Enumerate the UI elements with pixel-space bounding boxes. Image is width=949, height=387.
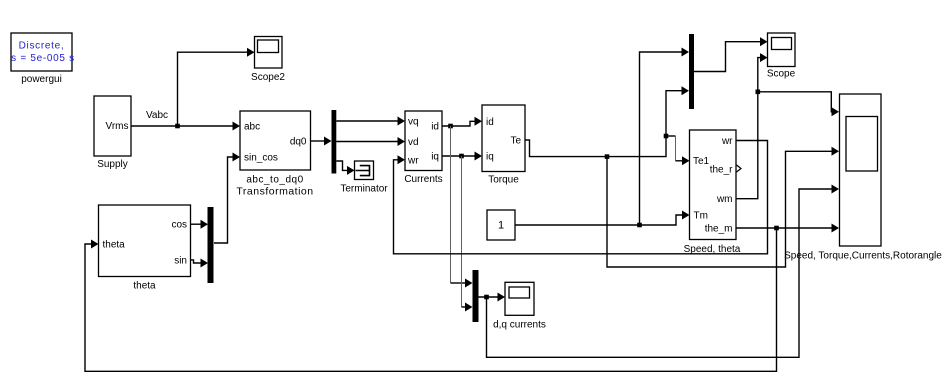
powergui block: [11, 33, 75, 85]
wire Vabc: [131, 110, 240, 131]
wire iq to Torque: [442, 152, 482, 161]
svg-text:wr: wr: [407, 155, 419, 166]
svg-text:vd: vd: [408, 137, 419, 148]
svg-text:d,q currents: d,q currents: [493, 320, 546, 331]
svg-text:Te1: Te1: [693, 156, 710, 167]
d,q mux (2 inputs): [473, 270, 479, 322]
node Te corner: [664, 134, 669, 139]
wire constant up to mux input 1: [640, 48, 690, 226]
svg-text:Vabc: Vabc: [146, 110, 168, 121]
wire iq branch down to d,q mux: [462, 156, 473, 312]
Speed, theta block: [684, 130, 741, 255]
Terminator: [340, 161, 388, 195]
node d,q branch: [484, 295, 489, 300]
wire the_m to big block input 4: [736, 224, 839, 233]
wire theta mux to sin_cos: [214, 153, 240, 244]
demux (3 outputs): [332, 110, 337, 174]
big block Speed, Torque,Currents,Rotorangle: [784, 94, 942, 262]
wire dq0 to demux: [311, 137, 332, 146]
wire wr feedback to Currents wr: [394, 141, 768, 254]
wire wm up to Scope input 2: [736, 53, 768, 199]
Torque block: [482, 105, 525, 186]
svg-text:iq: iq: [431, 152, 439, 163]
svg-text:theta: theta: [103, 240, 126, 251]
svg-text:Supply: Supply: [97, 159, 128, 170]
node constant branch: [637, 223, 642, 228]
svg-text:the_m: the_m: [705, 224, 733, 235]
svg-text:Terminator: Terminator: [340, 184, 388, 195]
svg-text:Vrms: Vrms: [106, 121, 129, 132]
wire d,q branch to big block input 3: [487, 185, 840, 358]
svg-text:wr: wr: [721, 136, 733, 147]
svg-text:abc: abc: [244, 122, 260, 133]
svg-text:Discrete,: Discrete,: [19, 41, 65, 52]
svg-text:Scope: Scope: [767, 69, 796, 80]
wire constant 1 to Tm: [515, 211, 690, 226]
Supply block: [94, 96, 131, 170]
wire demux out2 to vd: [336, 137, 405, 146]
svg-text:powergui: powergui: [21, 74, 62, 85]
wire Te branch down to big block input 2: [607, 147, 839, 267]
constant 1 block: [487, 210, 515, 240]
wire Te to Te1 input: [666, 136, 690, 165]
node id branch: [448, 124, 453, 129]
wire wm branch to big block input 1: [758, 92, 839, 117]
svg-text:abc_to_dq0: abc_to_dq0: [246, 175, 303, 186]
Scope2: [251, 37, 285, 84]
wire Vabc to Scope2: [178, 48, 255, 126]
the_r unconnected port: [737, 165, 742, 172]
svg-text:sin: sin: [174, 255, 187, 266]
svg-text:cos: cos: [171, 220, 187, 231]
wire d,q mux to scope: [479, 293, 506, 302]
svg-text:Tm: Tm: [694, 211, 708, 222]
svg-text:dq0: dq0: [290, 137, 307, 148]
wire Te: [525, 136, 666, 157]
node Te branch (down): [605, 154, 610, 159]
node the_m branch: [774, 226, 779, 231]
node wm branch: [756, 90, 761, 95]
abc_to_dq0 Transformation block: [236, 111, 313, 198]
wire cos to mux: [191, 220, 209, 229]
Scope: [767, 33, 796, 80]
node iq branch: [459, 154, 464, 159]
svg-text:theta: theta: [133, 281, 156, 292]
svg-text:Te: Te: [510, 136, 521, 147]
svg-text:Speed, Torque,Currents,Rotoran: Speed, Torque,Currents,Rotorangle: [784, 251, 942, 262]
svg-text:sin_cos: sin_cos: [244, 152, 278, 163]
svg-text:iq: iq: [486, 152, 494, 163]
svg-text:Torque: Torque: [488, 175, 519, 186]
wire id to Torque: [442, 117, 482, 126]
wire demux out1 to vq: [336, 117, 405, 126]
wire Te up to mux input 2: [666, 86, 689, 136]
svg-text:wm: wm: [716, 194, 733, 205]
wire id branch down to d,q mux: [451, 126, 473, 288]
svg-text:Currents: Currents: [404, 174, 442, 185]
wire mux to Scope input 1: [694, 37, 768, 71]
node Vabc junction: [175, 124, 180, 129]
wire theta feedback: [85, 228, 777, 371]
svg-text:id: id: [431, 122, 439, 133]
mux (top right, 2 inputs): [689, 34, 694, 109]
theta mux (2 inputs): [208, 207, 214, 283]
svg-text:id: id: [486, 117, 494, 128]
svg-text:Transformation: Transformation: [236, 186, 313, 198]
theta block: [99, 205, 191, 292]
svg-text:the_r: the_r: [710, 164, 733, 175]
Currents block: [404, 111, 442, 185]
d,q currents scope: [493, 282, 546, 330]
svg-text:vq: vq: [408, 117, 419, 128]
svg-text:Scope2: Scope2: [251, 72, 285, 83]
svg-text:s = 5e-005 s: s = 5e-005 s: [11, 53, 75, 64]
svg-text:1: 1: [498, 220, 504, 232]
wire sin to mux: [191, 259, 209, 268]
wire demux out3 to Terminator: [336, 161, 354, 175]
